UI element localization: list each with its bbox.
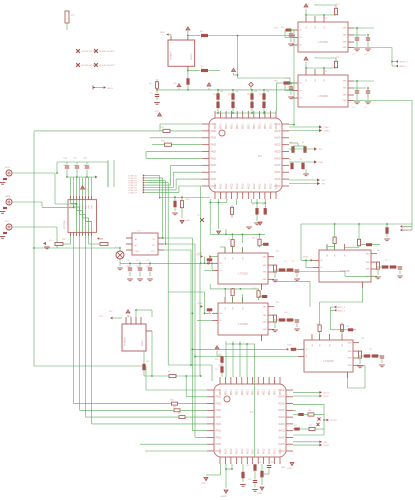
svg-text:IC2: IC2 — [258, 155, 262, 158]
svg-text:PA12: PA12 — [247, 183, 250, 189]
svg-text:VCC: VCC — [151, 251, 156, 253]
svg-text:LT3030: LT3030 — [318, 40, 328, 44]
svg-text:AVDD: AVDD — [278, 450, 285, 453]
svg-text:PB01: PB01 — [275, 389, 277, 395]
svg-text:R22: R22 — [178, 413, 181, 415]
svg-text:PA12: PA12 — [225, 448, 228, 454]
svg-text:100n: 100n — [63, 165, 67, 167]
svg-text:AGND: AGND — [221, 495, 227, 498]
svg-text:SEN: SEN — [263, 315, 268, 317]
svg-text:PA12: PA12 — [236, 183, 239, 189]
svg-text:R9: R9 — [300, 159, 302, 161]
svg-text:R10: R10 — [228, 239, 231, 241]
svg-text:SEN: SEN — [343, 28, 348, 30]
svg-text:R23: R23 — [246, 465, 249, 467]
svg-text:PA12: PA12 — [270, 183, 273, 189]
svg-text:PA05: PA05 — [211, 144, 217, 147]
svg-text:5V0: 5V0 — [109, 311, 112, 313]
svg-text:SEN: SEN — [366, 262, 371, 264]
svg-text:SEN: SEN — [366, 253, 371, 255]
svg-text:PA05: PA05 — [216, 409, 222, 412]
svg-text:DOUT: DOUT — [324, 445, 330, 447]
svg-text:PB01: PB01 — [231, 389, 233, 395]
svg-text:AVDD: AVDD — [274, 130, 281, 133]
svg-text:C30: C30 — [339, 324, 342, 326]
svg-text:AVDD: AVDD — [274, 164, 281, 167]
svg-text:FB1: FB1 — [230, 245, 233, 247]
svg-text:AVDD: AVDD — [278, 443, 285, 446]
svg-text:PA05: PA05 — [216, 443, 222, 446]
svg-text:R26: R26 — [297, 415, 300, 417]
svg-text:1V8D: 1V8D — [185, 220, 191, 222]
svg-text:PA12: PA12 — [225, 183, 228, 189]
svg-text:3V3: 3V3 — [173, 83, 176, 85]
svg-text:LRCLK: LRCLK — [331, 420, 338, 422]
svg-text:R31: R31 — [336, 57, 339, 59]
svg-text:XTAL1: XTAL1 — [324, 126, 331, 129]
svg-text:1: 1 — [74, 230, 76, 231]
svg-text:SEN: SEN — [348, 342, 353, 344]
svg-text:DATA: DATA — [5, 195, 11, 198]
svg-text:A1: A1 — [135, 238, 137, 241]
svg-text:PA05: PA05 — [211, 151, 217, 154]
svg-text:PA12: PA12 — [268, 448, 271, 454]
svg-text:PB01: PB01 — [232, 123, 234, 129]
svg-text:MCLK: MCLK — [324, 392, 330, 394]
svg-text:AVDD_1: AVDD_1 — [400, 65, 409, 68]
svg-text:100n: 100n — [83, 165, 87, 167]
svg-text:SEN: SEN — [263, 329, 268, 331]
svg-text:PA12: PA12 — [252, 448, 255, 454]
svg-text:5V0A: 5V0A — [303, 256, 308, 259]
svg-text:C33: C33 — [260, 477, 263, 479]
svg-text:PA12: PA12 — [230, 448, 233, 454]
svg-text:C13: C13 — [200, 66, 203, 68]
svg-text:PB01: PB01 — [226, 389, 228, 395]
svg-text:MSO: MSO — [161, 32, 166, 34]
svg-text:LP38691: LP38691 — [171, 50, 173, 60]
svg-text:SEN: SEN — [343, 42, 348, 44]
svg-text:R32: R32 — [186, 199, 189, 201]
svg-text:PB01: PB01 — [269, 389, 271, 395]
svg-text:PA12: PA12 — [258, 183, 261, 189]
svg-text:PB01: PB01 — [248, 123, 250, 129]
svg-text:R25: R25 — [271, 462, 274, 464]
svg-text:5V0A: 5V0A — [287, 344, 292, 347]
svg-text:SEN: SEN — [348, 365, 353, 367]
svg-text:PB01: PB01 — [258, 389, 260, 395]
svg-text:1V8A: 1V8A — [197, 252, 203, 255]
svg-text:PA12: PA12 — [253, 183, 256, 189]
svg-text:AVDD: AVDD — [278, 436, 285, 439]
svg-text:PB01: PB01 — [259, 123, 261, 129]
svg-text:BCLK: BCLK — [324, 396, 330, 398]
svg-text:AVDD_0: AVDD_0 — [404, 229, 413, 232]
svg-text:R20: R20 — [170, 400, 173, 402]
svg-text:R11: R11 — [276, 251, 279, 253]
svg-text:R13: R13 — [276, 302, 279, 304]
svg-text:DGND: DGND — [257, 493, 263, 495]
svg-text:C10: C10 — [324, 18, 327, 20]
svg-text:PB01: PB01 — [254, 123, 256, 129]
svg-text:B1: B1 — [153, 239, 155, 241]
svg-text:SEN: SEN — [343, 81, 348, 83]
svg-text:ADC0: ADC0 — [108, 87, 114, 90]
svg-text:AVDD: AVDD — [274, 185, 281, 188]
svg-text:SOT23: SOT23 — [142, 339, 144, 346]
svg-text:SOT23: SOT23 — [191, 53, 193, 60]
svg-text:1: 1 — [71, 230, 73, 231]
svg-text:PA05: PA05 — [211, 137, 217, 140]
svg-text:PB01: PB01 — [271, 123, 273, 129]
svg-text:PB01: PB01 — [247, 389, 249, 395]
svg-text:R19: R19 — [146, 361, 149, 363]
svg-text:C6: C6 — [284, 261, 286, 263]
svg-text:AVDD_2: AVDD_2 — [404, 226, 413, 229]
svg-text:PB01: PB01 — [236, 389, 238, 395]
svg-text:100n: 100n — [73, 165, 77, 167]
svg-text:C17: C17 — [369, 349, 372, 351]
svg-text:GND: GND — [135, 251, 140, 253]
svg-text:C35: C35 — [309, 425, 312, 427]
svg-text:100n: 100n — [146, 266, 150, 268]
svg-text:SEN: SEN — [348, 358, 353, 360]
svg-text:PA12: PA12 — [274, 448, 277, 454]
svg-text:PA05: PA05 — [211, 164, 217, 167]
svg-text:PA12: PA12 — [264, 183, 267, 189]
svg-text:MTL1: MTL1 — [5, 167, 11, 169]
svg-text:C11: C11 — [324, 71, 327, 73]
svg-text:SEN: SEN — [263, 272, 268, 274]
svg-text:PA12: PA12 — [220, 183, 223, 189]
svg-text:C3: C3 — [221, 204, 223, 206]
svg-text:AVDD: AVDD — [278, 423, 285, 426]
svg-text:AVDD: AVDD — [278, 396, 285, 399]
svg-text:C16: C16 — [284, 312, 287, 314]
svg-text:R33: R33 — [174, 213, 177, 215]
svg-text:PA05: PA05 — [211, 178, 217, 181]
svg-text:PA05: PA05 — [216, 403, 222, 406]
svg-text:R30: R30 — [336, 4, 339, 6]
svg-text:AVDD_4: AVDD_4 — [338, 306, 347, 309]
svg-text:AVDD: AVDD — [274, 137, 281, 140]
svg-text:PA05: PA05 — [211, 157, 217, 160]
svg-text:FB3: FB3 — [316, 324, 319, 326]
svg-text:PA05: PA05 — [216, 450, 222, 453]
svg-text:IC6: IC6 — [128, 316, 131, 318]
svg-text:CLK: CLK — [5, 221, 10, 223]
svg-text:R18: R18 — [361, 338, 364, 340]
svg-text:R40: R40 — [253, 288, 256, 290]
svg-text:PA05: PA05 — [216, 389, 222, 392]
svg-text:CONF_D7: CONF_D7 — [128, 192, 137, 194]
svg-text:PA12: PA12 — [257, 448, 260, 454]
svg-text:R8: R8 — [289, 159, 291, 161]
svg-text:R27: R27 — [294, 425, 297, 427]
svg-text:SEN: SEN — [343, 47, 348, 49]
svg-text:SEN: SEN — [263, 306, 268, 308]
svg-text:PA12: PA12 — [235, 448, 238, 454]
svg-text:PA05: PA05 — [216, 423, 222, 426]
svg-text:PB01: PB01 — [264, 389, 266, 395]
svg-text:B2: B2 — [153, 245, 155, 247]
svg-text:SEN: SEN — [343, 100, 348, 102]
svg-text:R34: R34 — [62, 239, 65, 241]
svg-text:R16: R16 — [281, 27, 284, 29]
svg-text:3V3: 3V3 — [85, 189, 88, 191]
svg-text:R17: R17 — [200, 31, 203, 33]
svg-text:PA05: PA05 — [216, 430, 222, 433]
svg-text:LT3030: LT3030 — [238, 272, 248, 276]
svg-text:AVDD: AVDD — [274, 178, 281, 181]
svg-text:R7: R7 — [302, 142, 304, 144]
svg-text:LP38691: LP38691 — [125, 336, 127, 346]
svg-text:AVDD_2: AVDD_2 — [338, 309, 347, 312]
svg-text:LT3030: LT3030 — [318, 94, 328, 98]
svg-text:PB01: PB01 — [237, 123, 239, 129]
svg-text:GND: GND — [281, 467, 286, 469]
svg-text:LT3030: LT3030 — [238, 322, 248, 326]
svg-text:1V8D: 1V8D — [201, 483, 206, 485]
svg-text:JP2 JTAG: JP2 JTAG — [63, 220, 66, 229]
svg-text:A2: A2 — [135, 244, 137, 247]
svg-text:PA05: PA05 — [216, 416, 222, 419]
svg-text:SEN: SEN — [366, 269, 371, 271]
svg-text:MOUNT-HOLE2.2: MOUNT-HOLE2.2 — [100, 65, 115, 67]
svg-text:SEN: SEN — [263, 256, 268, 258]
svg-text:C5: C5 — [262, 204, 264, 206]
svg-text:PA12: PA12 — [246, 448, 249, 454]
svg-text:R24: R24 — [258, 462, 261, 464]
svg-text:AVDD: AVDD — [278, 409, 285, 412]
svg-text:PB01: PB01 — [221, 123, 223, 129]
svg-text:PB01: PB01 — [242, 389, 244, 395]
svg-text:LT3030: LT3030 — [324, 359, 334, 363]
svg-text:PB01: PB01 — [265, 123, 267, 129]
svg-text:SEN: SEN — [343, 88, 348, 90]
svg-text:C32: C32 — [248, 479, 251, 481]
svg-text:DIN: DIN — [324, 442, 328, 444]
svg-text:C31: C31 — [346, 326, 349, 328]
svg-text:SEN: SEN — [263, 265, 268, 267]
svg-text:AVDD: AVDD — [278, 430, 285, 433]
svg-text:PB01: PB01 — [243, 123, 245, 129]
svg-text:PA12: PA12 — [242, 183, 245, 189]
svg-text:L1: L1 — [256, 238, 258, 240]
svg-text:R36: R36 — [252, 238, 255, 240]
svg-text:R21: R21 — [173, 406, 176, 408]
svg-text:100n: 100n — [136, 266, 140, 268]
svg-text:R35: R35 — [100, 239, 103, 241]
svg-text:C4: C4 — [252, 204, 254, 206]
svg-text:R16: R16 — [286, 78, 289, 80]
svg-text:AVDD: AVDD — [274, 123, 281, 126]
svg-text:PA05: PA05 — [211, 185, 217, 188]
svg-text:DGND: DGND — [287, 468, 293, 470]
svg-text:R6: R6 — [290, 142, 292, 144]
svg-text:FB2: FB2 — [230, 289, 233, 291]
svg-text:SEN: SEN — [263, 322, 268, 324]
svg-text:PA05: PA05 — [211, 130, 217, 133]
svg-text:SEN: SEN — [348, 351, 353, 353]
svg-text:PA05: PA05 — [216, 436, 222, 439]
svg-text:C34: C34 — [308, 410, 311, 412]
svg-text:PA12: PA12 — [231, 183, 234, 189]
svg-text:C7: C7 — [292, 261, 294, 263]
svg-text:PA12: PA12 — [241, 448, 244, 454]
svg-text:RST: RST — [322, 180, 327, 182]
svg-text:AVDD: AVDD — [278, 416, 285, 419]
svg-text:MOUNT-HOLE2.2: MOUNT-HOLE2.2 — [100, 51, 115, 53]
svg-text:AVDD: AVDD — [278, 389, 285, 392]
svg-text:PA05: PA05 — [211, 171, 217, 174]
svg-text:AVDD: AVDD — [278, 403, 285, 406]
svg-text:PA05: PA05 — [216, 396, 222, 399]
svg-text:PA05: PA05 — [211, 123, 217, 126]
svg-text:XTAL2: XTAL2 — [324, 130, 331, 133]
svg-text:C8: C8 — [385, 260, 387, 262]
svg-text:AVDD: AVDD — [274, 157, 281, 160]
svg-text:AVDD: AVDD — [274, 151, 281, 154]
svg-text:SEN: SEN — [343, 95, 348, 97]
svg-text:AVDD: AVDD — [274, 144, 281, 147]
svg-text:R12: R12 — [377, 250, 380, 252]
svg-text:AVDD: AVDD — [274, 171, 281, 174]
svg-text:AVDD_3: AVDD_3 — [400, 61, 409, 64]
svg-text:SEN: SEN — [343, 35, 348, 37]
svg-text:100n: 100n — [126, 266, 130, 268]
svg-text:SDA: SDA — [319, 161, 324, 164]
svg-text:SEN: SEN — [263, 279, 268, 281]
svg-text:PB01: PB01 — [226, 123, 228, 129]
svg-text:PA12: PA12 — [263, 448, 266, 454]
